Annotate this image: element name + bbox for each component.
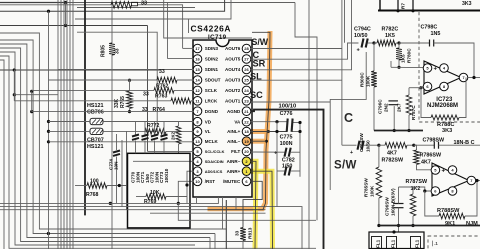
op-amp IC723a [424,61,461,94]
svg-text:VA: VA [234,119,241,124]
svg-text:9K1: 9K1 [445,221,455,227]
svg-text:10: 10 [195,179,200,184]
wire [150,212,266,214]
dashed block [428,236,480,249]
junction [109,202,112,205]
resistor R806 33 [111,2,132,9]
svg-text:19: 19 [244,139,249,144]
svg-text:33: 33 [115,48,121,54]
svg-text:+: + [350,150,353,156]
svg-text:SDA/CDIN: SDA/CDIN [205,159,224,164]
wire: SW gnd bar [379,225,480,227]
wire: C gnd bar [374,130,423,132]
wire [0,2,66,4]
svg-text:C796C: C796C [378,99,383,114]
svg-text:R800C: R800C [360,72,365,87]
highlight: orange stub AINL+ [251,129,269,134]
svg-text:VL: VL [205,129,211,134]
wire [48,11,50,249]
svg-text:AOUT3: AOUT3 [225,78,241,83]
svg-text:24: 24 [244,88,249,93]
highlight: yellow trace AINR+ net [251,171,273,249]
wire: AGND bus [251,110,324,249]
wire SDA [133,160,193,162]
svg-text:FILT: FILT [231,149,240,154]
svg-text:C798C: C798C [421,25,438,31]
svg-text:10/50: 10/50 [366,140,371,152]
IC719 left pin 7 DGND [193,107,202,116]
svg-text:3K3: 3K3 [462,1,472,7]
svg-text:AOUT6: AOUT6 [225,46,241,51]
connector FL1 block [369,232,424,249]
svg-text:R805: R805 [101,45,107,57]
svg-text:25: 25 [244,78,249,83]
svg-text:AINR+: AINR+ [227,169,241,174]
svg-text:33: 33 [235,230,241,236]
junction [30,90,33,93]
svg-text:CB706: CB706 [87,110,104,116]
svg-text:+: + [274,151,277,157]
wire MCLK [49,141,194,143]
wire SDIN3 [183,47,194,49]
IC719 left pin 10 /RST [193,177,202,186]
svg-text:R763: R763 [155,94,168,100]
op-amp IC723b [432,163,469,196]
svg-text:/MUTEC: /MUTEC [223,179,241,184]
IC719 left pin 14 SDOUT [193,76,202,85]
svg-text:18: 18 [244,129,249,134]
wire [0,25,148,27]
svg-text:100/10: 100/10 [279,103,297,109]
svg-text:AOUT1: AOUT1 [225,99,241,104]
wire: thick bus [84,0,86,215]
resistor R805 33 [109,43,115,55]
resistor R800C 100K [373,43,375,71]
resistor R785SW 100K [378,145,380,167]
IC719 left pin 4 SDA/CDIN [193,157,202,166]
resistor R773 2K2 [176,126,181,144]
wire AINR+ yellow [251,171,273,249]
svg-text:SDIN3: SDIN3 [205,46,219,51]
svg-text:CS4226A: CS4226A [191,24,232,34]
svg-text:C776: C776 [280,111,293,117]
IC719 left pin 17 SDIN3 [193,44,202,53]
wire AD0 [187,171,193,203]
wire [57,0,59,249]
svg-text:SC: SC [250,90,263,100]
wire [0,69,160,71]
capacitor C774 10N [116,134,118,150]
wire [0,60,4,249]
svg-text:2K2: 2K2 [171,131,176,140]
wire [0,0,225,11]
resistor R813 33 [240,228,246,241]
svg-text:C796SW: C796SW [385,197,390,216]
svg-text:100N: 100N [280,141,293,147]
wire AOUT6 to SW chain [251,48,342,50]
svg-text:SR: SR [253,59,266,69]
svg-text:+: + [434,67,438,73]
wire VA [251,121,287,123]
wire [209,238,211,249]
wire [0,4,111,6]
resistor R765 33K [128,79,131,82]
svg-text:R787C: R787C [411,105,416,120]
svg-text:33: 33 [141,1,147,7]
junction [13,93,16,96]
wire [251,131,287,133]
wire [13,70,15,101]
dashed boundary [419,12,480,122]
resistor R782SW 4K7 [385,142,407,148]
ferrite bead CB706 [90,118,103,124]
svg-text:AINL+: AINL+ [227,129,240,134]
wire SCL [148,150,194,152]
svg-text:R813: R813 [248,227,254,239]
wire [126,131,128,209]
svg-text:23: 23 [244,99,249,104]
svg-text:10K: 10K [150,190,160,196]
resistor R780C 1K5 [396,48,402,60]
junction [275,120,278,123]
svg-text:LRCK: LRCK [205,99,218,104]
wire [164,0,252,38]
IC719 left pin 3 AD0/1/CS [193,167,202,176]
svg-text:26: 26 [244,67,249,72]
svg-text:27: 27 [244,57,249,62]
svg-text:/RST: /RST [205,179,216,184]
svg-text:SCL/CCLK: SCL/CCLK [205,149,225,154]
wire [167,3,169,59]
capacitors C770-C773 [135,122,137,135]
junction [64,24,67,27]
wire AOUT3 [251,79,342,81]
wire [0,207,302,249]
svg-text:VD: VD [205,119,212,124]
junction [47,232,50,235]
wire /RST [178,181,193,203]
junction [64,1,67,4]
svg-text:AD0/1/CS: AD0/1/CS [205,169,223,174]
wire [72,0,74,249]
IC719 left pin 15 SDIN1 [193,65,202,74]
svg-text:28: 28 [244,46,249,51]
wire [341,0,343,145]
wire [308,0,310,249]
wire [111,55,113,249]
ferrite bead CB707 [90,128,103,134]
wire SDIN1 [58,69,193,71]
highlight: orange trace AINL net to bottom [208,31,271,209]
wire [111,0,113,43]
wire AINL- [251,140,267,142]
svg-text:14: 14 [195,78,200,83]
wire AOUT4 [251,0,352,70]
wire [292,122,300,124]
svg-text:FL1: FL1 [391,239,396,248]
svg-text:HS121: HS121 [87,144,103,150]
wire AOUT1 SC [251,101,330,103]
wire AINR- yellow [251,161,256,249]
junction [47,130,50,133]
wire [0,197,218,203]
wire [147,26,149,152]
resistor R788C 3K3 [419,86,422,89]
wire [196,197,198,203]
highlight: orange stub AINL- [251,139,267,144]
IC719 CS4226A body [193,40,252,197]
wire [14,94,58,96]
IC719 left pin 16 SDIN2 [193,55,202,64]
wire [295,3,317,221]
svg-text:AOUT4: AOUT4 [225,67,241,72]
svg-text:4K7: 4K7 [421,160,431,166]
svg-text:CB707: CB707 [87,138,104,144]
svg-text:100/10: 100/10 [164,168,169,183]
junction [47,120,50,123]
svg-text:+: + [442,169,446,175]
svg-text:S/W: S/W [334,160,357,172]
svg-text:13: 13 [195,139,200,144]
svg-text:HS121: HS121 [87,103,103,109]
wire SDIN2 [168,58,194,60]
svg-text:DGND: DGND [205,109,219,114]
wire [65,3,67,26]
wire [225,200,227,249]
wire VD + bead [49,121,91,123]
svg-text:R788SW: R788SW [437,208,460,214]
wire [214,234,216,249]
svg-text:10N: 10N [114,161,119,170]
svg-text:MCLK: MCLK [205,139,219,144]
svg-text:1K5: 1K5 [401,54,406,63]
svg-text:22: 22 [244,119,249,124]
resistor R786SW 4K7 [414,145,417,150]
wire [69,0,71,249]
capacitor C798C 1N5 [399,42,430,44]
wire [330,52,366,190]
svg-text:3K3: 3K3 [442,128,452,134]
svg-text:18N-B C: 18N-B C [454,140,475,146]
IC719 left pin 12 SCLK [193,86,202,95]
IC719 left pin 13 MCLK [193,137,202,146]
svg-text:R787SW: R787SW [406,179,428,185]
svg-text:R765: R765 [120,96,126,108]
svg-text:2K7: 2K7 [397,103,402,112]
wire AOUT5 to C chain [251,43,359,59]
junction [13,68,16,71]
highlight: yellow trace AINR- net [251,161,256,249]
wire [77,32,157,131]
junction [47,10,50,13]
svg-text:16: 16 [195,57,200,62]
svg-text:SCLK: SCLK [205,88,218,93]
wire: orange net [208,32,271,209]
svg-text:21: 21 [244,109,249,114]
svg-text:12: 12 [195,88,200,93]
svg-text:AOUT5: AOUT5 [225,57,241,62]
svg-text:100K: 100K [366,75,371,87]
svg-text:C794C: C794C [354,27,371,33]
svg-text:17: 17 [195,46,200,51]
wire [121,140,123,207]
svg-text:R785SW: R785SW [364,178,369,197]
svg-text:20: 20 [244,149,249,154]
svg-text:1K5: 1K5 [385,33,395,39]
svg-text:15: 15 [195,67,200,72]
wire: nested corner bundle left [0,33,226,229]
IC block above (edge) [379,0,381,11]
svg-text:1N5: 1N5 [431,31,441,37]
svg-text:R772: R772 [147,123,160,129]
wire [75,0,231,19]
svg-text:R782SW: R782SW [382,157,404,163]
svg-text:NJM: NJM [466,221,478,227]
svg-text:R769: R769 [144,199,157,205]
wire [222,197,224,229]
svg-text:2N2: 2N2 [384,103,389,112]
wire [178,203,316,220]
svg-text:IC719: IC719 [208,34,227,41]
junction [47,140,50,143]
svg-text:100K: 100K [370,185,375,197]
IC719 left pin 5 SCL/CCLK [193,147,202,156]
IC719 left pin 9 VL [193,127,202,136]
wire VL + bead [49,130,91,132]
wire DGND [32,111,194,113]
svg-text:AGND: AGND [227,109,241,114]
svg-text:AINR−: AINR− [227,159,241,164]
svg-text:33: 33 [159,69,165,75]
svg-text:SDOUT: SDOUT [205,78,221,83]
wire [235,197,237,210]
IC719 left pin 11 LRCK [193,97,202,106]
module box [128,153,191,228]
svg-text:SDIN1: SDIN1 [205,67,219,72]
IC719 left pin 8 VD [193,117,202,126]
wire [344,0,346,43]
svg-text:33: 33 [143,92,149,98]
wire [63,0,65,249]
svg-text:C: C [344,111,353,125]
wire [188,19,190,33]
svg-text:R768: R768 [86,192,99,198]
svg-text:10/50: 10/50 [354,33,368,39]
svg-text:4K7: 4K7 [387,151,397,157]
svg-text:C775: C775 [280,135,293,141]
wire [31,91,33,111]
svg-text:R780C: R780C [407,48,412,63]
svg-text:AOUT2: AOUT2 [225,88,241,93]
svg-text:160N-B(63V): 160N-B(63V) [391,188,396,216]
svg-text:R786SW: R786SW [420,153,442,159]
wire [60,0,62,249]
svg-text:FL1: FL1 [376,239,381,248]
svg-text:SDIN2: SDIN2 [205,57,219,62]
svg-text:R7: R7 [401,3,406,9]
wire AINL+ [251,131,269,133]
wire [0,209,266,211]
svg-text:NJM2068M: NJM2068M [427,103,458,109]
wire [66,0,68,249]
svg-text:S/W: S/W [252,37,269,47]
wire /MUTEC loop [243,181,262,227]
capacitor C798SW 18N-B [414,144,435,146]
svg-text:AINL−: AINL− [227,139,240,144]
svg-text:FL1: FL1 [415,239,420,248]
wire [77,7,195,9]
junction [30,110,33,113]
svg-text:R782C: R782C [382,27,399,33]
